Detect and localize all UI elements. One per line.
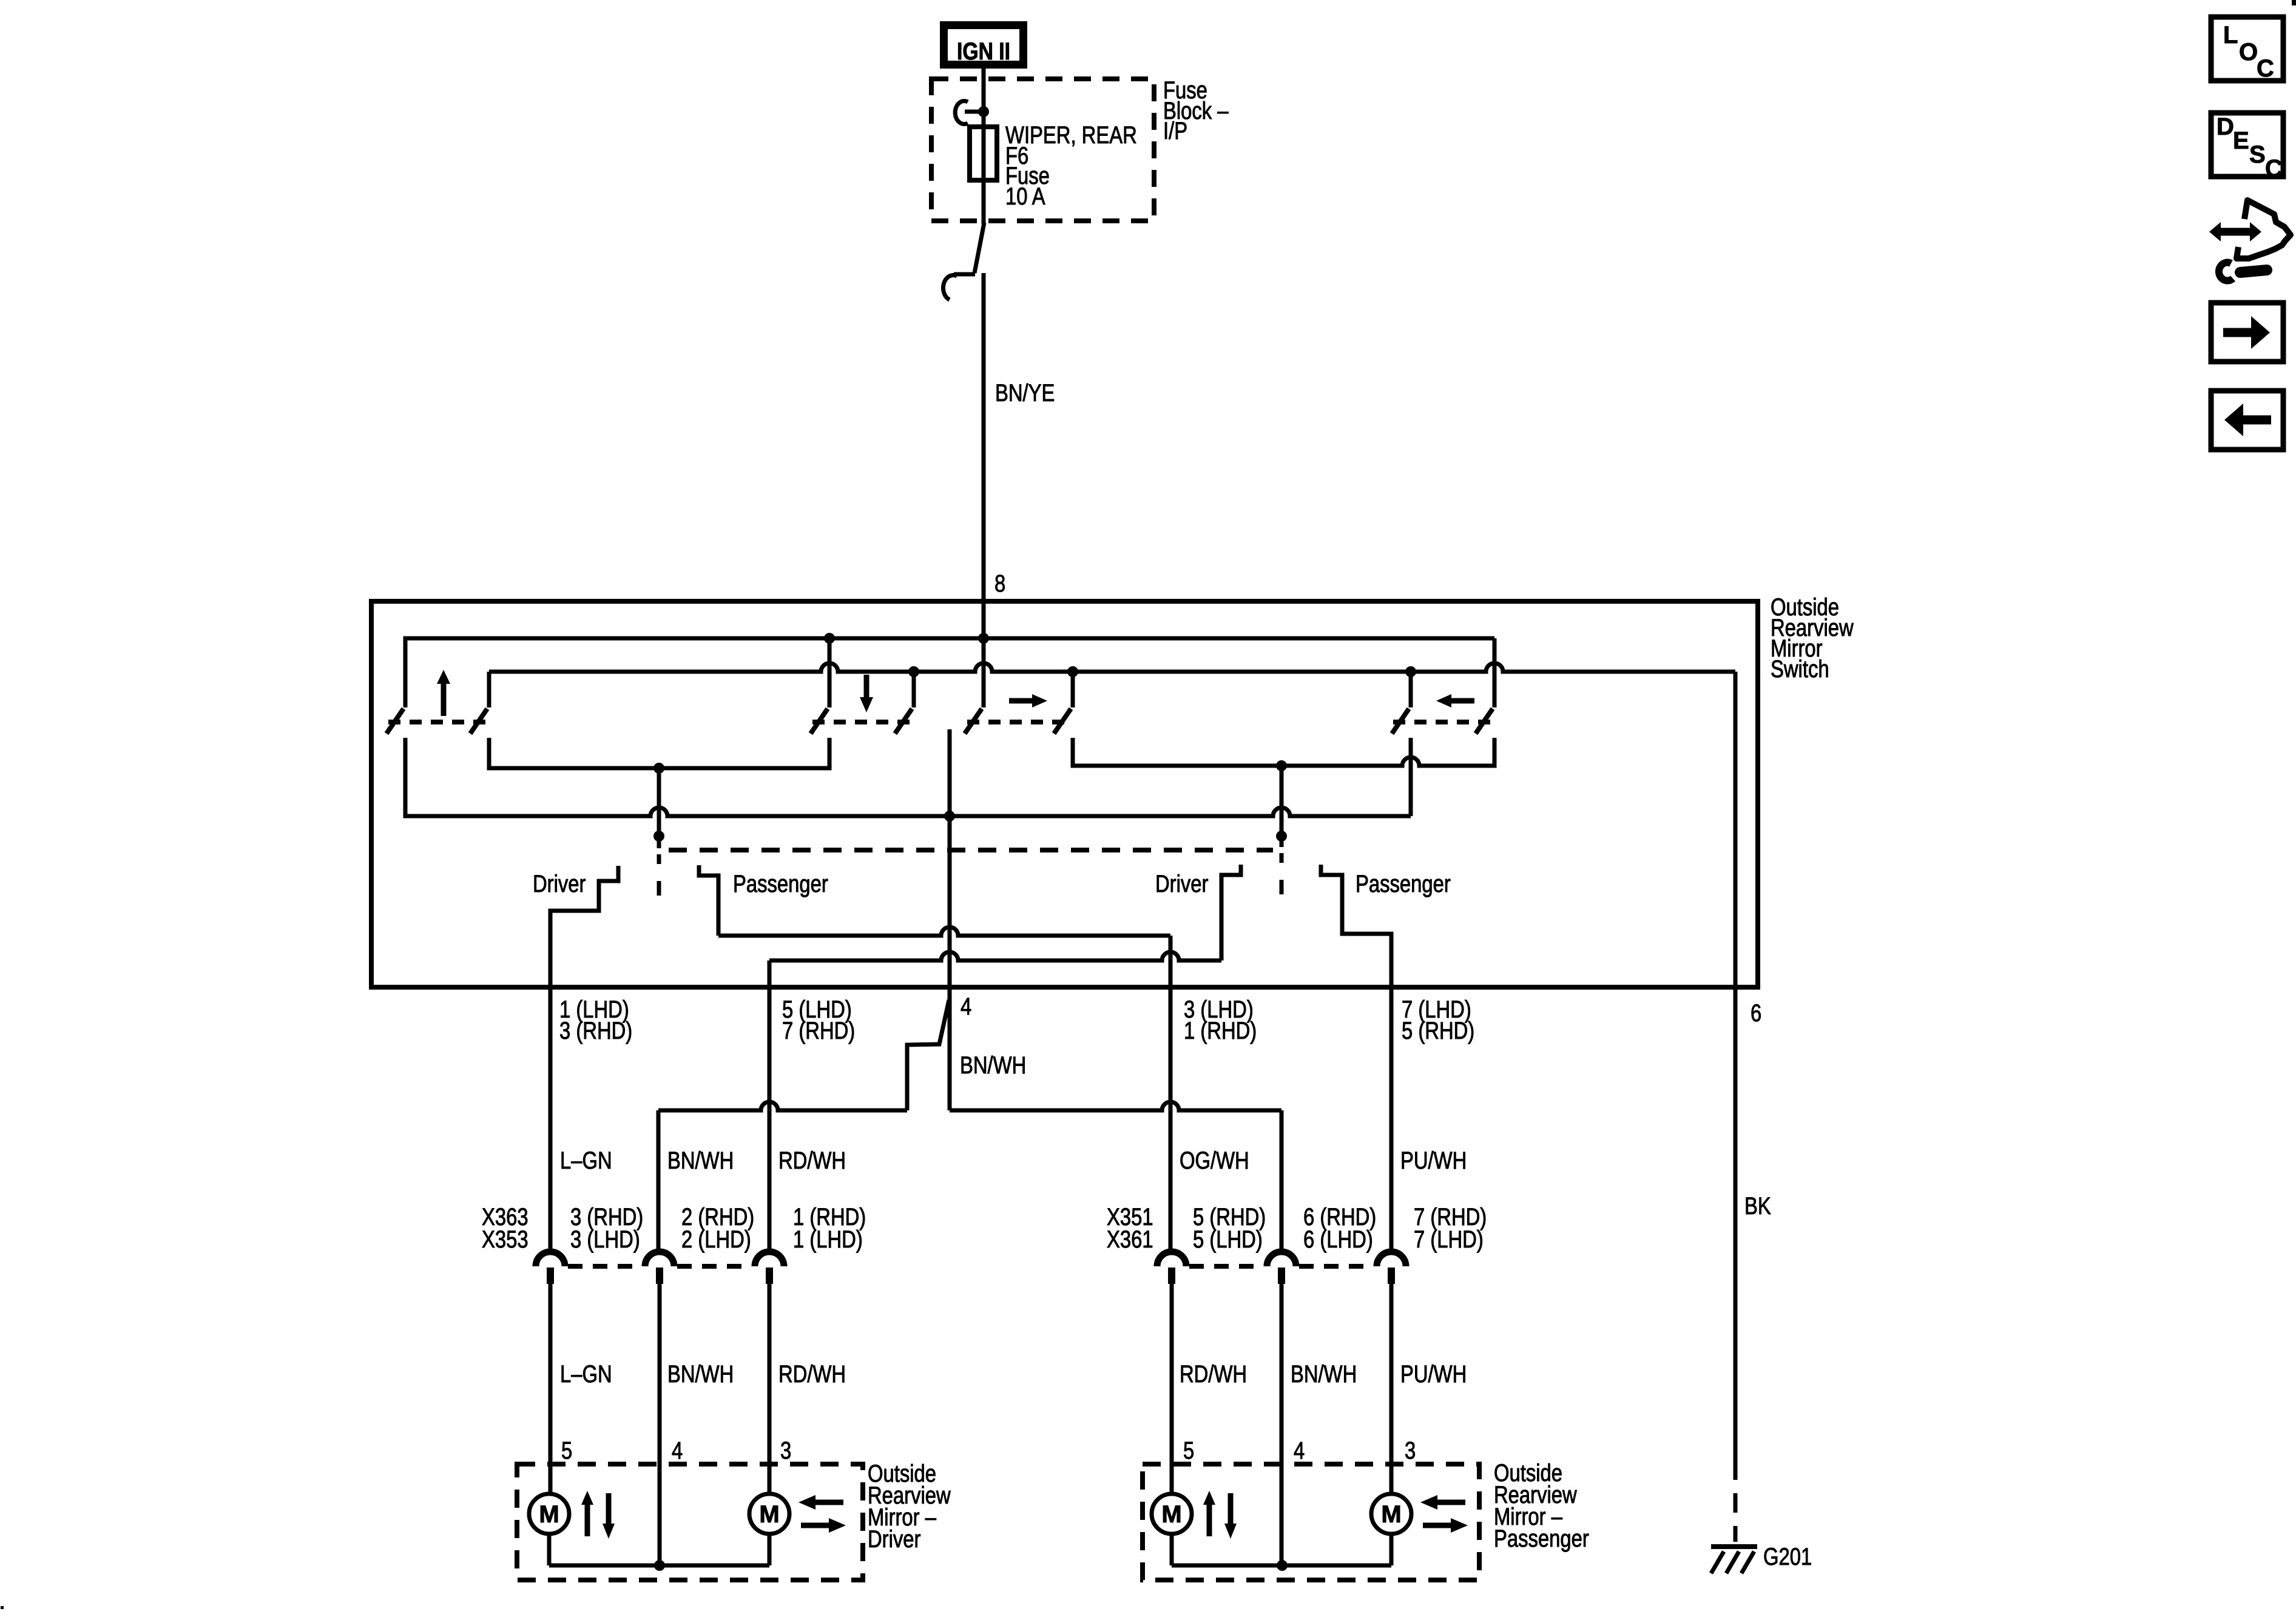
svg-text:2 (LHD): 2 (LHD) <box>681 1226 751 1253</box>
svg-text:RD/WH: RD/WH <box>778 1147 846 1174</box>
ground bus wire <box>489 663 1735 672</box>
svg-text:RD/WH: RD/WH <box>778 1360 846 1388</box>
icon next arrow <box>2223 328 2252 337</box>
svg-text:5: 5 <box>561 1437 572 1464</box>
junction dot line B <box>1276 760 1287 771</box>
wire BK dashed <box>1734 1460 1738 1542</box>
svg-text:M: M <box>1161 1501 1181 1528</box>
connector terminal BN/WH <box>645 1252 674 1266</box>
right arrow symbol <box>1009 698 1033 704</box>
svg-text:G201: G201 <box>1763 1543 1812 1570</box>
wire motor passenger vertical to bus <box>1170 1534 1174 1565</box>
junction dot bus1 feed <box>978 633 989 644</box>
svg-text:BN/WH: BN/WH <box>960 1052 1026 1079</box>
mech link down-switch <box>812 720 910 724</box>
wire bus2 to down-right contact <box>912 672 916 707</box>
junction dot fuse input <box>978 106 989 117</box>
motor M driver vertical <box>529 1494 569 1534</box>
mech rod left dash2 <box>657 881 661 896</box>
down arrow passenger mirror <box>1228 1493 1234 1524</box>
junction dot bus2 down-right <box>908 666 919 677</box>
svg-text:X361: X361 <box>1107 1226 1153 1253</box>
svg-text:4: 4 <box>1294 1437 1305 1464</box>
svg-text:L: L <box>2223 22 2238 49</box>
wire motor driver horizontal to bus <box>768 1534 772 1565</box>
svg-text:3: 3 <box>1405 1437 1416 1464</box>
power tag IGN II box <box>944 25 1024 65</box>
svg-text:I/P: I/P <box>1163 117 1187 144</box>
svg-text:5 (LHD): 5 (LHD) <box>1193 1226 1263 1253</box>
wire BN/WH r to mirror <box>1280 1283 1284 1565</box>
up arrow driver mirror <box>585 1503 590 1536</box>
icon DESC box <box>2211 113 2283 177</box>
svg-text:8: 8 <box>994 570 1005 597</box>
wire bus2 left drop <box>487 672 491 707</box>
wire BN/WH to mirror <box>658 1283 662 1565</box>
svg-text:Passenger: Passenger <box>1356 870 1451 897</box>
svg-text:7 (LHD): 7 (LHD) <box>1414 1226 1484 1253</box>
wire L-GN to mirror <box>549 1283 553 1494</box>
passenger mirror bus <box>1172 1564 1391 1568</box>
wire pin4 branch right <box>950 1102 1281 1110</box>
up arrow passenger mirror <box>1207 1503 1212 1536</box>
driver select 2 wire <box>1221 865 1241 960</box>
wire bus2 to right-pair contact <box>1071 672 1075 707</box>
wire bus1 to down-switch contact <box>828 638 832 707</box>
wire bus2 to left-pair contact <box>1409 672 1413 707</box>
ground symbol G201 <box>1711 1544 1757 1549</box>
mech link right-switch <box>967 720 1069 724</box>
svg-text:Driver: Driver <box>1155 870 1208 897</box>
switch blade 5 <box>965 709 982 734</box>
page artifact top right <box>2292 0 2296 5</box>
svg-text:10 A: 10 A <box>1005 183 1045 210</box>
clip hook lower <box>943 274 975 300</box>
icon LOC box <box>2211 17 2283 81</box>
icon connector-repair outline <box>2237 200 2291 258</box>
svg-text:3 (LHD): 3 (LHD) <box>570 1226 640 1253</box>
svg-text:O: O <box>2239 39 2258 66</box>
svg-text:7 (RHD): 7 (RHD) <box>782 1017 855 1044</box>
motor M passenger horizontal <box>1371 1494 1411 1534</box>
driver mirror dashed box <box>517 1464 863 1580</box>
mech rod left dash1 <box>657 854 661 864</box>
svg-text:3: 3 <box>780 1437 791 1464</box>
fuse output jumper <box>974 223 984 273</box>
wire bus1 right drop <box>1493 638 1497 707</box>
svg-text:Driver: Driver <box>533 870 586 897</box>
switch blade 8 <box>1476 709 1493 734</box>
passenger select 1 wire <box>699 865 718 936</box>
svg-text:M: M <box>539 1501 559 1528</box>
junction dot passenger mirror <box>1277 1560 1288 1571</box>
wire motor driver vertical to bus <box>547 1534 552 1565</box>
switch blade 6 <box>1054 709 1071 734</box>
svg-text:BK: BK <box>1744 1192 1771 1220</box>
svg-text:M: M <box>1381 1501 1401 1528</box>
switch blade 4 <box>895 709 912 734</box>
svg-text:IGN II: IGN II <box>957 38 1010 65</box>
wire line C up-left bottom <box>405 738 1411 816</box>
svg-text:1 (LHD): 1 (LHD) <box>793 1226 863 1253</box>
passenger mirror dashed box <box>1143 1464 1479 1580</box>
fuse F6 element <box>970 127 997 180</box>
svg-text:S: S <box>2249 141 2266 168</box>
outside rearview mirror switch box <box>371 601 1758 987</box>
junction dot bus2 right-pair <box>1067 666 1078 677</box>
connector terminal RD/WH r <box>1157 1252 1186 1266</box>
wire motor passenger horizontal to bus <box>1389 1534 1394 1565</box>
wire RD/WH r to mirror <box>1170 1283 1174 1494</box>
wire BK solid <box>1734 987 1738 1460</box>
switch blade 1 <box>387 709 403 734</box>
switch blade 2 <box>470 709 487 734</box>
svg-text:PU/WH: PU/WH <box>1400 1147 1467 1174</box>
svg-text:C: C <box>2265 155 2283 182</box>
svg-text:D: D <box>2217 113 2234 140</box>
svg-text:PU/WH: PU/WH <box>1400 1360 1467 1388</box>
right arrow passenger mirror <box>1423 1523 1452 1528</box>
right arrow driver mirror <box>801 1523 830 1528</box>
icon next arrow box <box>2211 303 2283 362</box>
svg-text:3 (RHD): 3 (RHD) <box>559 1017 632 1044</box>
wire pin4 branch left <box>907 1000 949 1110</box>
junction dot bus2 left-pair <box>1405 666 1416 677</box>
svg-text:Switch: Switch <box>1771 655 1829 683</box>
junction dot line A <box>653 763 664 774</box>
wire from IGN II to fuse <box>982 67 986 224</box>
wire line B <box>1073 738 1494 766</box>
connector terminal BN/WH r <box>1267 1252 1296 1266</box>
mech link up-switch <box>388 720 485 724</box>
svg-text:E: E <box>2233 127 2249 154</box>
connector terminal L-GN <box>536 1252 565 1266</box>
mech rod right dot <box>1276 831 1287 842</box>
wire bus2 to pin 6 <box>1734 672 1738 987</box>
svg-text:BN/YE: BN/YE <box>995 379 1055 407</box>
svg-text:RD/WH: RD/WH <box>1180 1360 1247 1388</box>
mech rod right dash2 <box>1280 880 1284 894</box>
passenger select 2 wire <box>1321 865 1391 1252</box>
motor M driver horizontal <box>749 1494 789 1534</box>
junction dot line C <box>944 811 955 822</box>
driver mirror bus <box>549 1564 769 1568</box>
svg-text:4: 4 <box>672 1437 683 1464</box>
mech rod left dot <box>653 831 664 842</box>
wire line C right rise <box>1409 738 1413 816</box>
connector dashed line right <box>1189 1264 1264 1269</box>
svg-text:6 (LHD): 6 (LHD) <box>1303 1226 1373 1253</box>
wire line A <box>489 738 829 768</box>
svg-text:4: 4 <box>961 993 971 1020</box>
mech long dashed link <box>669 848 1273 852</box>
clip hook upper <box>955 101 984 124</box>
icon wrench <box>2240 270 2267 272</box>
icon prev arrow box <box>2211 391 2283 450</box>
svg-text:M: M <box>759 1501 779 1528</box>
left arrow symbol <box>1450 698 1474 704</box>
svg-text:BN/WH: BN/WH <box>1291 1360 1357 1388</box>
svg-text:5: 5 <box>1183 1437 1194 1464</box>
mech rod right <box>1280 766 1284 847</box>
wire RD/WH to mirror <box>768 1283 772 1494</box>
driver select 1 wire <box>550 866 618 1252</box>
icon prev arrow <box>2242 416 2271 425</box>
svg-text:OG/WH: OG/WH <box>1180 1147 1249 1174</box>
switch blade 7 <box>1392 709 1409 734</box>
mech link left-switch <box>1393 720 1491 724</box>
svg-text:5 (RHD): 5 (RHD) <box>1402 1017 1474 1044</box>
svg-text:X353: X353 <box>482 1226 528 1253</box>
junction dot bus1 down-switch <box>824 633 835 644</box>
motor M passenger vertical <box>1152 1494 1192 1534</box>
svg-text:L–GN: L–GN <box>560 1147 612 1174</box>
up arrow symbol <box>441 682 447 716</box>
connector terminal RD/WH <box>755 1252 784 1266</box>
svg-text:Passenger: Passenger <box>1494 1525 1589 1552</box>
supply bus wire <box>405 638 1494 707</box>
svg-text:1 (RHD): 1 (RHD) <box>1184 1017 1257 1044</box>
switch blade 3 <box>811 709 828 734</box>
mech rod right dash1 <box>1280 853 1284 863</box>
left arrow passenger mirror <box>1436 1500 1465 1505</box>
down arrow symbol <box>864 675 869 698</box>
svg-text:L–GN: L–GN <box>560 1360 612 1388</box>
svg-text:Passenger: Passenger <box>733 870 828 897</box>
left arrow driver mirror <box>814 1500 843 1505</box>
wire switch common to pin 4 <box>948 729 952 1110</box>
svg-text:6: 6 <box>1751 999 1761 1027</box>
icon double arrow <box>2220 228 2252 236</box>
connector terminal PU/WH r <box>1377 1252 1406 1266</box>
svg-text:BN/WH: BN/WH <box>667 1147 734 1174</box>
page artifact bottom left <box>1 1606 4 1609</box>
svg-text:BN/WH: BN/WH <box>667 1360 734 1388</box>
wire BN/YE to switch <box>982 273 986 707</box>
mech rod left <box>657 768 661 848</box>
down arrow driver mirror <box>606 1493 612 1524</box>
junction dot driver mirror <box>654 1560 665 1571</box>
fuse block dashed outline <box>931 79 1154 221</box>
wire PU/WH r to mirror <box>1389 1283 1394 1494</box>
connector dashed line left <box>568 1264 642 1269</box>
svg-text:C: C <box>2257 55 2274 82</box>
svg-text:Driver: Driver <box>868 1525 920 1553</box>
